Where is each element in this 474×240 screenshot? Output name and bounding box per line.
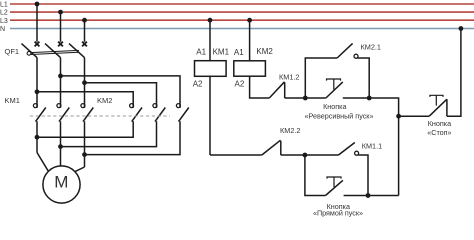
wire: KM1 coil A2 down bbox=[209, 76, 211, 155]
wire: KM2 pole 2 output to phase V rail bbox=[61, 121, 157, 146]
wire: L3 to KM1 coil A1 bbox=[209, 20, 211, 61]
push button SB2 (reverse start, NO) bbox=[326, 79, 343, 98]
node: N tap bbox=[459, 26, 464, 31]
wire: QF1 pole 1 output down bbox=[36, 58, 38, 102]
wire: QF1 pole 2 output down bbox=[60, 58, 62, 102]
node D (forward branch split) bbox=[303, 153, 308, 158]
node: L1 tap bbox=[35, 2, 40, 7]
bus L3 bbox=[10, 19, 474, 21]
wire: KM1 pole 1 output down bbox=[36, 121, 38, 152]
node: phase U join bbox=[35, 135, 40, 140]
wire: forward button to node E bbox=[344, 195, 368, 197]
QF1 pole 1 fixed contact X bbox=[35, 42, 40, 47]
wire: motor feed right diagonal bbox=[75, 167, 85, 172]
node: phase V join bbox=[58, 144, 63, 149]
svg-text:L2: L2 bbox=[0, 10, 8, 17]
coil KM2 bbox=[234, 61, 266, 76]
contactor KM1 main contact pole 2 bbox=[57, 101, 69, 122]
QF1 linkage bar (double line) bbox=[31, 50, 80, 52]
QF1 linkage pivot ring bbox=[27, 51, 31, 55]
mechanical linkage (dashed) KM1-KM2 bbox=[30, 115, 170, 117]
bus N bbox=[10, 28, 474, 30]
node: control tap KM2 coil on L3 bbox=[247, 18, 252, 23]
QF1 pole 2 blade bbox=[45, 44, 61, 58]
motor M1 bbox=[43, 166, 80, 203]
svg-text:КМ1.1: КМ1.1 bbox=[362, 141, 382, 150]
svg-text:КМ2.1: КМ2.1 bbox=[361, 42, 381, 51]
svg-text:QF1: QF1 bbox=[5, 47, 20, 56]
QF1 pole 1 blade bbox=[22, 44, 38, 58]
svg-text:A2: A2 bbox=[193, 79, 203, 88]
svg-text:N: N bbox=[0, 26, 5, 33]
node: L3 tap bbox=[82, 18, 87, 23]
wire: KM2.1 to node B bbox=[357, 58, 369, 98]
QF1 pole 2 fixed contact X bbox=[58, 42, 63, 47]
circuit breaker QF1 bbox=[22, 42, 87, 58]
wire: node E to right rail corner bbox=[368, 195, 399, 197]
wire: KM2 pole 3 output to phase W rail bbox=[85, 121, 181, 154]
svg-text:«Реверсивный пуск»: «Реверсивный пуск» bbox=[305, 112, 374, 121]
wire: node D to KM1.1 bbox=[305, 154, 339, 156]
wire: KM2.2 to node D bbox=[281, 154, 305, 156]
NO holding contact KM1.1 bbox=[339, 143, 359, 156]
wire: L3 tap down to QF1 pole 3 bbox=[84, 20, 86, 42]
NO holding contact KM2.1 bbox=[337, 43, 358, 58]
node: L2 branch to KM2 pole 3 bbox=[58, 74, 63, 79]
QF1 pole 3 blade bbox=[69, 44, 85, 58]
wire: KM2 pole 1 output to phase U rail bbox=[37, 121, 133, 137]
wire: KM1 pole 3 output down bbox=[84, 121, 86, 167]
svg-text:КМ2.2: КМ2.2 bbox=[280, 126, 300, 135]
svg-text:KM1: KM1 bbox=[5, 96, 20, 105]
wire: node A up to KM2.1 branch bbox=[305, 58, 337, 98]
node: L1 branch to KM2 pole 1 bbox=[35, 89, 40, 94]
svg-text:«Стоп»: «Стоп» bbox=[427, 128, 451, 137]
contactor KM2 main contact pole 1 bbox=[130, 101, 142, 122]
contactor KM2 main contact pole 3 bbox=[176, 101, 188, 122]
svg-text:Кнопка: Кнопка bbox=[323, 102, 346, 111]
node B (reverse branch rejoin) bbox=[367, 96, 372, 101]
svg-text:L1: L1 bbox=[0, 2, 8, 9]
node C (stop branch junction) bbox=[396, 114, 401, 119]
wire: node A to reverse button bbox=[305, 97, 326, 99]
svg-text:КМ1.2: КМ1.2 bbox=[279, 72, 299, 81]
wire: stop button to N rail bbox=[447, 29, 461, 117]
wire: node D down to forward button bbox=[305, 155, 326, 196]
wire: KM2 coil A2 down and right bbox=[250, 76, 270, 98]
svg-text:«Прямой пуск»: «Прямой пуск» bbox=[313, 208, 363, 217]
coil KM1 bbox=[195, 61, 227, 77]
wire: motor feed left diagonal bbox=[37, 153, 48, 172]
wire: QF1 pole 3 output down bbox=[84, 58, 86, 102]
wire: KM1.2 to node A bbox=[285, 97, 306, 99]
svg-text:KM1: KM1 bbox=[213, 47, 230, 56]
wire: crossover L3 to KM2 pole 2 bbox=[85, 83, 157, 102]
wire: crossover L2 to KM2 pole 3 bbox=[61, 76, 181, 102]
wire: crossover L1 to KM2 pole 1 bbox=[37, 92, 133, 102]
NC interlock contact KM2.2 bbox=[262, 140, 281, 155]
push button SB1 (stop, NC) bbox=[429, 95, 447, 116]
node E (forward branch rejoin) bbox=[366, 193, 371, 198]
svg-text:A2: A2 bbox=[235, 80, 245, 89]
contactor KM1 main contact pole 1 bbox=[33, 101, 45, 122]
bus L1 bbox=[10, 3, 474, 5]
svg-text:L3: L3 bbox=[0, 18, 8, 25]
node A (reverse branch split) bbox=[303, 96, 308, 101]
contactor KM1 main contact pole 3 bbox=[81, 101, 93, 122]
wire: L2 tap down to QF1 pole 2 bbox=[60, 12, 62, 42]
wire: node C to stop button bbox=[399, 115, 430, 117]
wire: L3 to KM2 coil A1 bbox=[249, 20, 251, 61]
wire: KM1 coil branch lower rail bbox=[210, 154, 262, 156]
svg-text:М: М bbox=[54, 173, 68, 192]
NC interlock contact KM1.2 bbox=[269, 82, 284, 98]
push button SB3 (forward start, NO) bbox=[326, 177, 343, 196]
node: control tap KM1 coil on L3 bbox=[208, 18, 213, 23]
svg-text:KM2: KM2 bbox=[256, 47, 273, 56]
svg-text:A1: A1 bbox=[196, 48, 206, 57]
QF1 pole 3 fixed contact X bbox=[82, 42, 87, 47]
wire: KM1.1 to node E bbox=[358, 155, 368, 196]
svg-text:KM2: KM2 bbox=[97, 96, 112, 105]
node: L2 tap bbox=[58, 10, 63, 15]
svg-text:A1: A1 bbox=[234, 48, 244, 57]
wire: L1 tap down to QF1 pole 1 bbox=[36, 4, 38, 42]
wire: KM1 pole 2 output down bbox=[60, 121, 62, 166]
node: phase W join bbox=[82, 152, 87, 157]
wire: reverse button to node B bbox=[343, 97, 369, 99]
svg-text:Кнопка: Кнопка bbox=[428, 119, 451, 128]
wire: node B to right rail bbox=[369, 98, 398, 196]
node: L3 branch to KM2 pole 2 bbox=[82, 80, 87, 85]
contactor KM2 main contact pole 2 bbox=[153, 101, 165, 122]
bus L2 bbox=[10, 11, 474, 13]
